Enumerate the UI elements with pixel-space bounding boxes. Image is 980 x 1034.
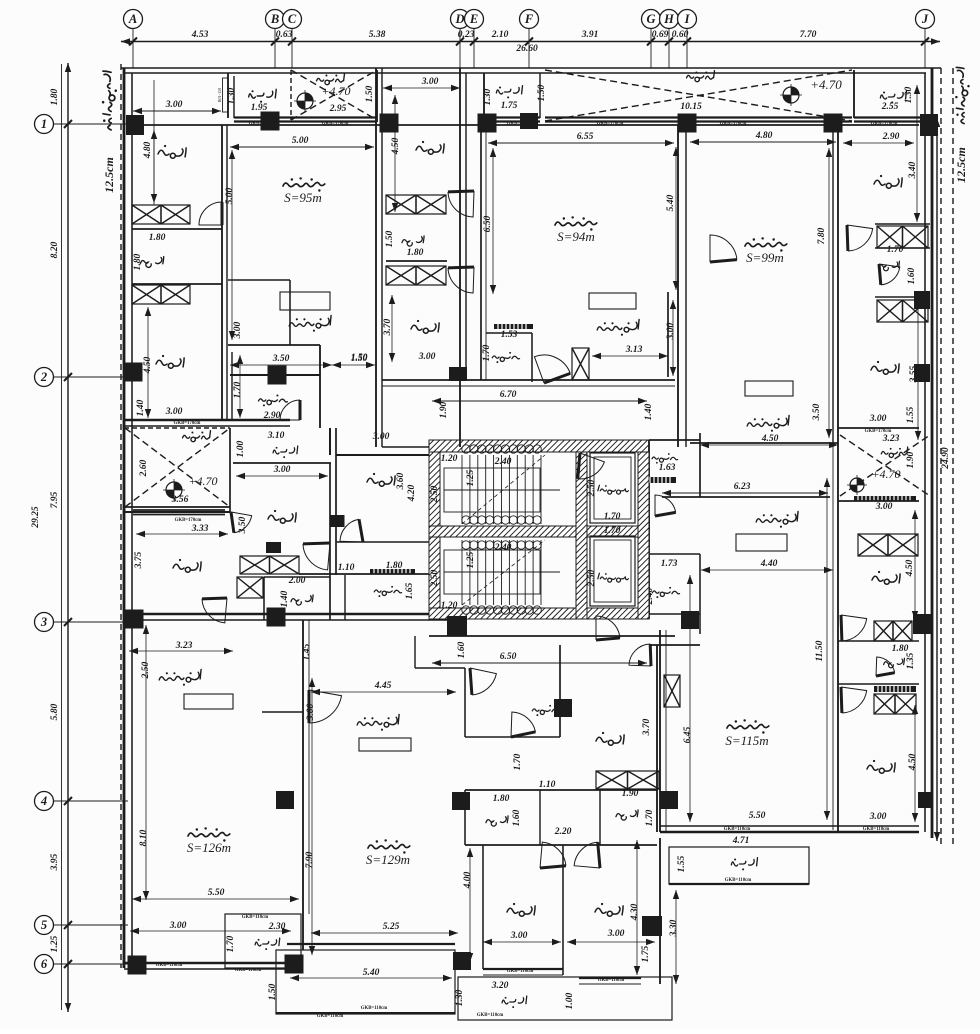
svg-text:1.40: 1.40 — [136, 399, 146, 416]
svg-text:26.60: 26.60 — [515, 44, 538, 54]
svg-text:3.33: 3.33 — [191, 524, 209, 534]
svg-text:1.63: 1.63 — [659, 463, 676, 473]
svg-text:2.50: 2.50 — [587, 569, 597, 587]
svg-text:11.50: 11.50 — [815, 640, 825, 661]
svg-text:1.90: 1.90 — [439, 401, 449, 418]
svg-text:1.25: 1.25 — [466, 469, 476, 486]
svg-text:29.25: 29.25 — [31, 506, 41, 529]
svg-text:7.80: 7.80 — [817, 227, 827, 244]
svg-text:5.80: 5.80 — [50, 703, 60, 720]
svg-text:H: H — [663, 12, 675, 26]
svg-text:S=99m: S=99m — [746, 250, 784, 265]
svg-text:2.40: 2.40 — [494, 543, 512, 553]
svg-text:12.5cm: 12.5cm — [102, 157, 116, 193]
svg-text:1.70: 1.70 — [645, 809, 655, 826]
svg-text:4.80: 4.80 — [755, 131, 773, 141]
svg-text:1.30: 1.30 — [455, 989, 465, 1006]
svg-text:B: B — [270, 12, 279, 26]
svg-text:GKB=170cm: GKB=170cm — [174, 421, 201, 426]
svg-text:7.95: 7.95 — [50, 491, 60, 508]
svg-text:1.60: 1.60 — [457, 641, 467, 658]
svg-text:3.91: 3.91 — [581, 30, 599, 40]
svg-text:GKB=170cm: GKB=170cm — [720, 122, 747, 127]
svg-text:3.00: 3.00 — [418, 352, 436, 362]
svg-text:8.20: 8.20 — [50, 241, 60, 258]
svg-text:1.40: 1.40 — [644, 403, 654, 420]
svg-text:2.20: 2.20 — [554, 827, 572, 837]
svg-text:2.90: 2.90 — [263, 411, 281, 421]
svg-text:6.70: 6.70 — [500, 390, 517, 400]
svg-text:1.30: 1.30 — [904, 86, 914, 103]
svg-text:GKB=110cm: GKB=110cm — [725, 878, 751, 883]
svg-text:3.50: 3.50 — [272, 354, 290, 364]
svg-text:3.70: 3.70 — [642, 718, 652, 736]
svg-text:1.80: 1.80 — [892, 644, 909, 654]
svg-text:4.00: 4.00 — [463, 871, 473, 889]
svg-text:1.25: 1.25 — [50, 935, 60, 952]
svg-text:5.00: 5.00 — [225, 187, 235, 204]
svg-text:10.15: 10.15 — [680, 102, 702, 112]
svg-text:5.00: 5.00 — [292, 136, 309, 146]
svg-text:1.30: 1.30 — [227, 87, 237, 104]
svg-text:3.00: 3.00 — [165, 100, 183, 110]
svg-text:1.10: 1.10 — [539, 780, 556, 790]
svg-text:1.75: 1.75 — [501, 101, 518, 111]
svg-text:4.50: 4.50 — [391, 137, 401, 155]
svg-text:1.75: 1.75 — [641, 945, 651, 962]
svg-text:1.80: 1.80 — [133, 253, 143, 270]
svg-text:1.80: 1.80 — [386, 561, 403, 571]
svg-text:E: E — [469, 12, 478, 26]
svg-text:+4.70: +4.70 — [810, 77, 842, 92]
svg-text:6.55: 6.55 — [577, 132, 594, 142]
svg-text:1.53: 1.53 — [501, 330, 518, 340]
svg-text:4.71: 4.71 — [732, 836, 750, 846]
svg-text:1.80: 1.80 — [407, 248, 424, 258]
svg-text:GKB=110cm: GKB=110cm — [156, 963, 182, 968]
svg-text:3.00: 3.00 — [233, 321, 243, 339]
svg-text:1.60: 1.60 — [907, 267, 917, 284]
svg-text:2.40: 2.40 — [494, 457, 512, 467]
svg-text:3.56: 3.56 — [171, 495, 189, 505]
svg-text:6.23: 6.23 — [734, 482, 751, 492]
svg-text:5.25: 5.25 — [383, 922, 400, 932]
svg-text:5.38: 5.38 — [369, 30, 386, 40]
svg-text:1.25: 1.25 — [466, 551, 476, 568]
svg-text:1.40: 1.40 — [280, 590, 290, 607]
svg-text:3.00: 3.00 — [869, 812, 887, 822]
svg-text:1.50: 1.50 — [268, 983, 278, 1000]
svg-text:3.10: 3.10 — [267, 431, 285, 441]
svg-text:3.13: 3.13 — [625, 345, 643, 355]
svg-text:1.00: 1.00 — [565, 992, 575, 1009]
svg-text:3.00: 3.00 — [421, 77, 439, 87]
svg-text:3.60: 3.60 — [396, 472, 406, 490]
svg-text:3.00: 3.00 — [869, 414, 887, 424]
svg-text:S=129m: S=129m — [366, 852, 410, 867]
svg-text:1.70: 1.70 — [604, 512, 621, 522]
svg-text:A: A — [128, 12, 137, 26]
svg-text:GKB=170cm: GKB=170cm — [871, 122, 898, 127]
svg-text:3.00: 3.00 — [372, 432, 390, 442]
svg-text:1.60: 1.60 — [512, 809, 522, 826]
svg-text:1.50: 1.50 — [385, 230, 395, 247]
svg-text:+4.70: +4.70 — [871, 467, 900, 481]
svg-text:3.00: 3.00 — [875, 502, 893, 512]
svg-text:1.70: 1.70 — [513, 753, 523, 770]
svg-text:1.50: 1.50 — [537, 84, 547, 101]
svg-text:1.50: 1.50 — [351, 353, 368, 363]
svg-text:GKB=110cm: GKB=110cm — [317, 1014, 343, 1019]
svg-text:1.80: 1.80 — [50, 88, 60, 105]
svg-text:B01-110: B01-110 — [217, 88, 222, 103]
svg-text:D: D — [454, 12, 464, 26]
svg-text:4.20: 4.20 — [407, 484, 417, 502]
svg-text:6.50: 6.50 — [483, 215, 493, 232]
svg-text:GKB=110cm: GKB=110cm — [507, 969, 533, 974]
svg-text:6.50: 6.50 — [500, 652, 517, 662]
svg-text:3.50: 3.50 — [812, 403, 822, 421]
svg-text:GKB=170cm: GKB=170cm — [175, 518, 202, 523]
svg-text:1.70: 1.70 — [226, 935, 236, 952]
svg-text:1.45: 1.45 — [302, 643, 312, 660]
svg-text:0.60: 0.60 — [672, 30, 689, 40]
svg-text:1: 1 — [41, 117, 47, 131]
svg-text:GKB=170cm: GKB=170cm — [322, 122, 349, 127]
svg-text:3.40: 3.40 — [908, 161, 918, 179]
svg-text:12.5cm: 12.5cm — [954, 147, 968, 183]
svg-text:2.60: 2.60 — [139, 459, 149, 477]
svg-text:3.95: 3.95 — [50, 853, 60, 871]
svg-text:1.73: 1.73 — [661, 559, 678, 569]
svg-text:1.10: 1.10 — [338, 563, 355, 573]
svg-text:1.50: 1.50 — [365, 85, 375, 102]
svg-text:4.53: 4.53 — [191, 30, 209, 40]
svg-text:1.90: 1.90 — [622, 789, 639, 799]
svg-text:1.20: 1.20 — [441, 601, 458, 611]
svg-text:3.55: 3.55 — [909, 365, 919, 383]
svg-text:3.20: 3.20 — [491, 981, 509, 991]
svg-text:4: 4 — [40, 794, 47, 808]
svg-text:1.55: 1.55 — [906, 406, 916, 423]
svg-text:5.50: 5.50 — [208, 888, 225, 898]
svg-text:GKB=170cm: GKB=170cm — [597, 122, 624, 127]
svg-text:1.35: 1.35 — [906, 652, 916, 669]
svg-text:5.40: 5.40 — [666, 194, 676, 211]
svg-text:1.20: 1.20 — [441, 454, 458, 464]
svg-text:0.69: 0.69 — [652, 30, 669, 40]
svg-text:S=94m: S=94m — [557, 229, 595, 244]
svg-text:GKB=110cm: GKB=110cm — [863, 827, 889, 832]
svg-text:S=115m: S=115m — [725, 733, 768, 748]
svg-text:4.30: 4.30 — [630, 903, 640, 921]
svg-text:1.55: 1.55 — [677, 855, 687, 872]
svg-text:2.95: 2.95 — [329, 104, 347, 114]
svg-text:GKB=110cm: GKB=110cm — [235, 968, 261, 973]
svg-text:GKB=110cm: GKB=110cm — [477, 1013, 503, 1018]
svg-text:24.90: 24.90 — [941, 447, 951, 470]
svg-text:J: J — [921, 12, 929, 26]
svg-text:1.70: 1.70 — [482, 344, 492, 361]
svg-text:3.00: 3.00 — [607, 929, 625, 939]
svg-text:3.00: 3.00 — [273, 465, 291, 475]
svg-text:3.75: 3.75 — [134, 551, 144, 569]
svg-text:1.00: 1.00 — [236, 440, 246, 457]
svg-text:4.80: 4.80 — [143, 141, 153, 159]
svg-text:+4.70: +4.70 — [188, 474, 217, 488]
svg-text:1.70: 1.70 — [604, 526, 621, 536]
svg-text:2.50: 2.50 — [587, 479, 597, 497]
svg-text:GKB=110cm: GKB=110cm — [361, 1006, 387, 1011]
svg-text:3.23: 3.23 — [175, 641, 193, 651]
svg-text:GKB=110cm: GKB=110cm — [242, 915, 268, 920]
svg-text:3.00: 3.00 — [169, 921, 187, 931]
svg-text:0.63: 0.63 — [276, 30, 293, 40]
svg-text:1.80: 1.80 — [493, 794, 510, 804]
svg-text:2.50: 2.50 — [430, 485, 440, 503]
svg-text:1.65: 1.65 — [405, 582, 415, 599]
svg-text:3.30: 3.30 — [669, 919, 679, 937]
svg-text:+4.70: +4.70 — [321, 84, 350, 98]
svg-text:4.50: 4.50 — [908, 753, 918, 771]
svg-text:5: 5 — [41, 918, 47, 932]
svg-text:4.45: 4.45 — [374, 681, 392, 691]
svg-text:6: 6 — [41, 957, 48, 971]
svg-text:3: 3 — [40, 615, 47, 629]
svg-text:2.10: 2.10 — [491, 30, 509, 40]
svg-text:C: C — [288, 12, 297, 26]
svg-text:7.90: 7.90 — [305, 851, 315, 868]
svg-text:1.90: 1.90 — [906, 451, 916, 468]
svg-text:2.50: 2.50 — [430, 569, 440, 587]
svg-text:4.50: 4.50 — [905, 559, 915, 577]
svg-text:GKB=110cm: GKB=110cm — [598, 978, 624, 983]
svg-text:3.00: 3.00 — [165, 407, 183, 417]
svg-text:8.10: 8.10 — [139, 829, 149, 846]
svg-text:0.23: 0.23 — [458, 30, 475, 40]
svg-text:S=95m: S=95m — [284, 190, 322, 205]
svg-text:3.23: 3.23 — [882, 434, 900, 444]
svg-text:3.00: 3.00 — [510, 931, 528, 941]
svg-text:S=126m: S=126m — [187, 840, 231, 855]
svg-text:2.55: 2.55 — [881, 102, 899, 112]
svg-text:F: F — [524, 12, 534, 26]
svg-text:3.70: 3.70 — [383, 318, 393, 336]
svg-text:1.30: 1.30 — [483, 88, 493, 105]
svg-text:5.40: 5.40 — [363, 968, 380, 978]
svg-text:5.50: 5.50 — [749, 811, 766, 821]
svg-text:2.90: 2.90 — [882, 132, 900, 142]
svg-text:1.70: 1.70 — [887, 245, 904, 255]
svg-text:4.40: 4.40 — [760, 559, 778, 569]
svg-text:GKB=110cm: GKB=110cm — [724, 827, 750, 832]
svg-text:6.45: 6.45 — [683, 726, 693, 743]
svg-text:G: G — [646, 12, 655, 26]
svg-text:2: 2 — [40, 370, 47, 384]
svg-text:7.70: 7.70 — [800, 30, 817, 40]
svg-text:1.70: 1.70 — [233, 381, 243, 398]
svg-text:1.80: 1.80 — [149, 233, 166, 243]
